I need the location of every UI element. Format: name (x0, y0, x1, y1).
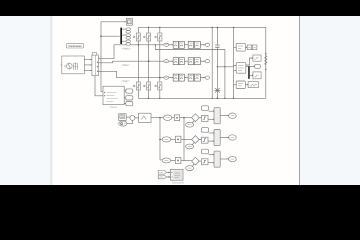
svg-text:Subsystem: Subsystem (172, 182, 184, 185)
svg-text:Continuous: Continuous (68, 44, 82, 48)
svg-text:<Vdc>: <Vdc> (122, 79, 130, 83)
svg-text:<Iabc>: <Iabc> (122, 63, 131, 67)
svg-text:Power: Power (110, 106, 117, 109)
svg-text:<Vabc>: <Vabc> (122, 46, 131, 50)
